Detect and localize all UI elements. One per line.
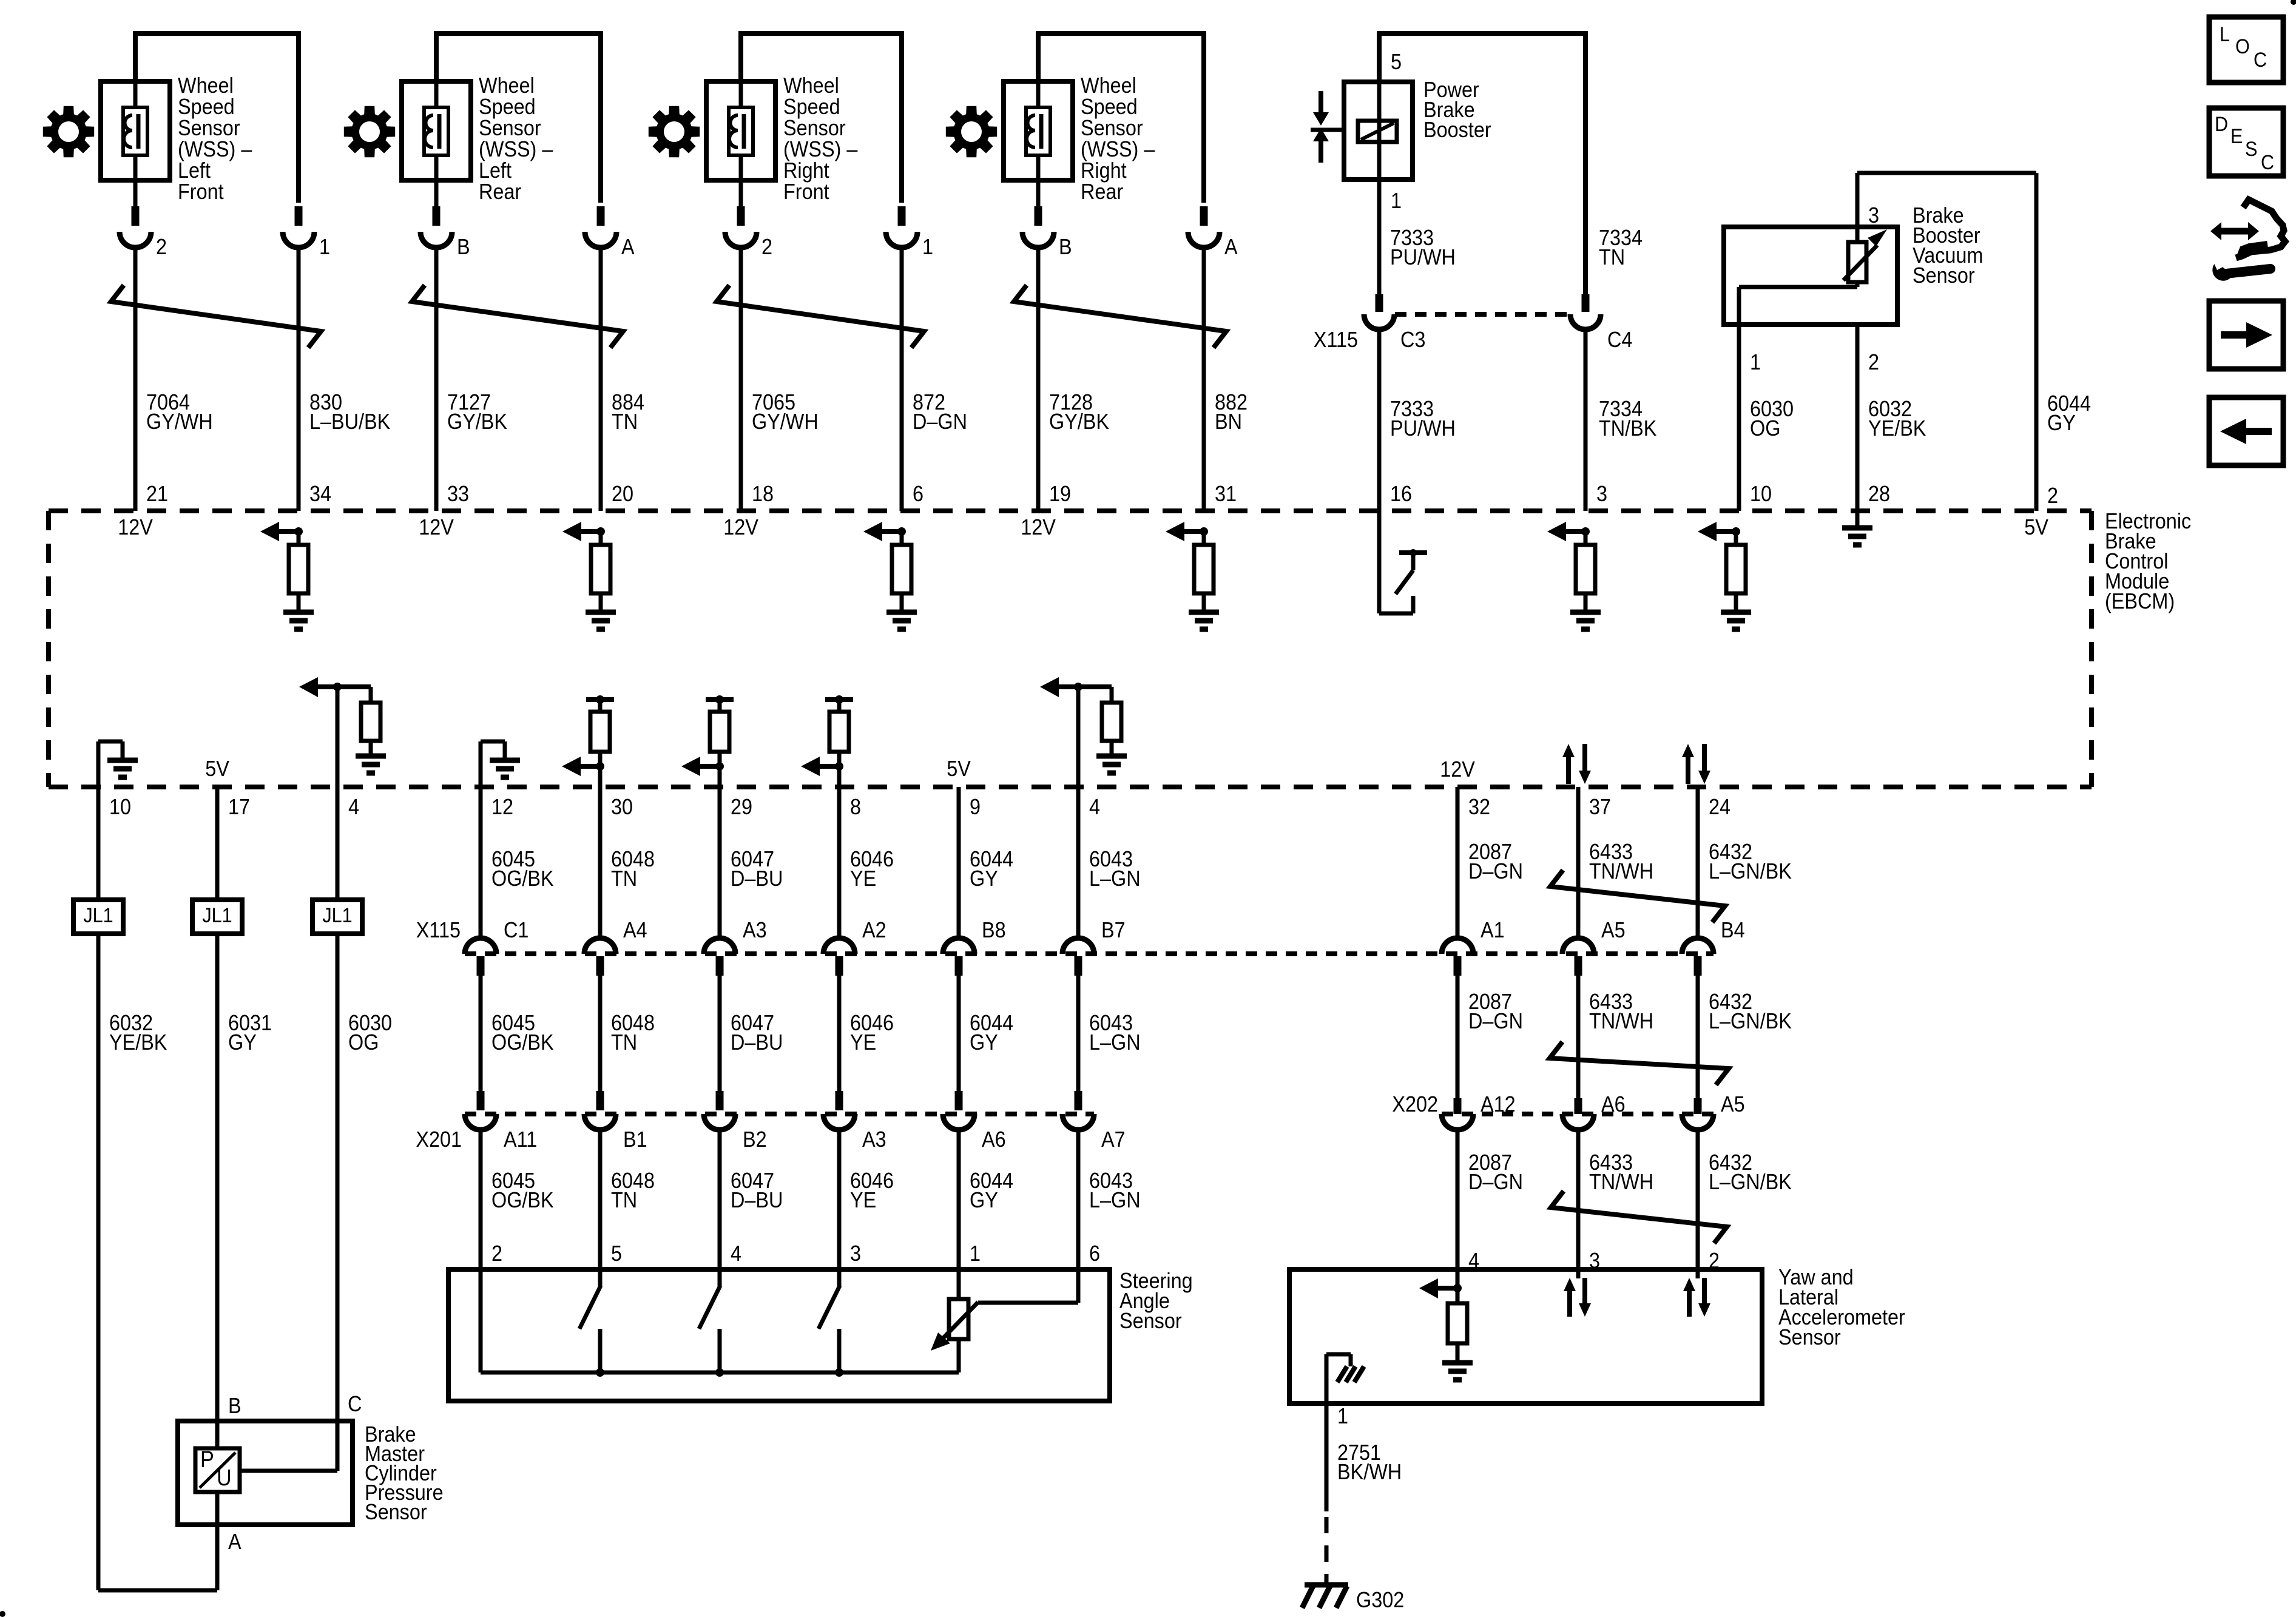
booster vacuum check-valve arrows — [1311, 91, 1344, 163]
svg-text:A3: A3 — [862, 1127, 886, 1152]
pressure sensor P/U transducer — [195, 1446, 240, 1492]
pin 3 number — [1868, 203, 1879, 228]
svg-text:C: C — [2254, 49, 2267, 72]
svg-text:(WSS) –: (WSS) – — [178, 137, 252, 161]
gear wheel icon (Right Rear) — [946, 106, 997, 157]
yaw sensor pin 4 — [1468, 1249, 1479, 1273]
svg-text:YE: YE — [850, 866, 876, 891]
svg-text:5V: 5V — [2024, 515, 2048, 539]
svg-text:TN: TN — [611, 1030, 637, 1055]
svg-text:C3: C3 — [1400, 328, 1425, 352]
svg-text:2: 2 — [491, 1241, 502, 1266]
booster relay coil symbol — [1358, 121, 1397, 142]
wire 7128 GY/BK — [1036, 246, 1041, 511]
X115 connector A5 — [1562, 918, 1626, 976]
wire 6048 TN segment X115 to X201 — [598, 976, 603, 1110]
svg-text:Sensor: Sensor — [1778, 1325, 1841, 1349]
svg-text:YE/BK: YE/BK — [109, 1030, 167, 1055]
wire labels 7127 GY/BK / 884 TN — [447, 390, 644, 434]
svg-text:(EBCM): (EBCM) — [2105, 589, 2175, 613]
yaw sensor serial arrows pin 2 — [1683, 1269, 1710, 1317]
svg-text:Speed: Speed — [1081, 95, 1138, 119]
wire 6030 OG — [1737, 325, 1741, 511]
svg-text:D–BU: D–BU — [731, 866, 783, 891]
svg-text:Sensor: Sensor — [1081, 116, 1143, 140]
wire 6048 TN segment EBCM to X115 — [598, 787, 603, 939]
steering sensor pin 2 — [491, 1241, 502, 1266]
wire 6432 L&#8211;GN/BK segment EBCM to X115 — [1696, 787, 1700, 939]
svg-text:TN/WH: TN/WH — [1589, 859, 1653, 883]
wire 6031 GY lower — [215, 934, 220, 1421]
12V net label — [118, 515, 153, 539]
wire 6030 OG lower — [336, 934, 340, 1421]
terminal pins WSS Left Front — [135, 180, 299, 226]
vacuum sensor label — [1913, 203, 1983, 288]
svg-text:X202: X202 — [1392, 1092, 1438, 1116]
svg-text:OG/BK: OG/BK — [491, 866, 554, 891]
wire 6046 YE segment X201 to steering sensor pin 3 — [837, 1129, 842, 1269]
svg-text:19: 19 — [1049, 482, 1071, 506]
label 6043 L&#8211;GN (middle) — [1089, 1011, 1141, 1055]
svg-text:TN: TN — [611, 1188, 637, 1212]
EBCM label — [2105, 509, 2191, 613]
wire 6043 L&#8211;GN segment X201 to steering sensor pin 6 — [1076, 1129, 1081, 1269]
pin letters 2 1 — [156, 235, 330, 259]
twisted pair crossover Right Front — [717, 285, 924, 348]
svg-text:2: 2 — [2047, 484, 2058, 508]
svg-text:18: 18 — [752, 482, 774, 506]
svg-text:33: 33 — [447, 482, 469, 506]
booster loop wire — [1379, 33, 1585, 297]
svg-text:A11: A11 — [504, 1127, 537, 1152]
svg-text:Wheel: Wheel — [178, 73, 234, 98]
label 6433 TN/WH (middle) — [1589, 990, 1653, 1033]
wire 6032 YE/BK — [1855, 325, 1860, 511]
steering sensor pin 3 — [850, 1241, 861, 1266]
svg-text:BK/WH: BK/WH — [1337, 1460, 1402, 1484]
label 6044 GY (upper) — [970, 847, 1013, 891]
steering angle sensor box — [448, 1269, 1110, 1401]
labels 6030 OG / 6032 YE/BK / 6044 GY — [1750, 391, 2091, 441]
svg-text:A: A — [228, 1530, 241, 1554]
svg-text:37: 37 — [1589, 795, 1611, 819]
label 6043 L&#8211;GN (upper) — [1089, 847, 1141, 891]
steering sensor pin 6 — [1089, 1241, 1100, 1266]
label 6048 TN (lower) — [611, 1169, 655, 1212]
svg-text:(WSS) –: (WSS) – — [479, 137, 553, 161]
svg-text:30: 30 — [611, 795, 633, 819]
wire 7065 GY/WH — [739, 246, 743, 511]
power brake booster box — [1344, 82, 1413, 180]
svg-text:2: 2 — [1868, 350, 1879, 374]
svg-text:GY: GY — [228, 1030, 257, 1055]
X115 connector B7 — [1062, 918, 1126, 976]
labels 7333 PU/WH / 7334 TN/BK lower — [1390, 397, 1657, 441]
EBCM pin numbers 33 20 — [447, 482, 633, 506]
wire 7333 PU/WH upper — [1377, 180, 1382, 312]
svg-text:B: B — [457, 235, 470, 259]
label 2087 D&#8211;GN (middle) — [1468, 990, 1523, 1033]
svg-text:L–GN: L–GN — [1089, 1188, 1141, 1212]
svg-text:Sensor: Sensor — [178, 116, 240, 140]
twisted pair crossover Left Front — [111, 285, 321, 348]
X115 label (mid) — [416, 918, 461, 942]
svg-text:JL1: JL1 — [322, 904, 352, 927]
label 6432 L&#8211;GN/BK (upper) — [1709, 840, 1792, 883]
svg-text:Sensor: Sensor — [479, 116, 541, 140]
EBCM serial data arrows at x=2798 — [1682, 744, 1710, 784]
svg-text:10: 10 — [1750, 482, 1772, 506]
wire 6046 YE segment X115 to X201 — [837, 976, 842, 1110]
X201 connector B2 — [704, 1114, 767, 1152]
yaw pin 1 number — [1337, 1404, 1348, 1428]
steering sensor internal bus wire — [481, 1269, 959, 1372]
label 6433 TN/WH (upper) — [1589, 840, 1653, 883]
wire 6047 D&#8211;BU segment X115 to X201 — [718, 976, 722, 1110]
svg-text:16: 16 — [1390, 482, 1412, 506]
wire labels 7064 GY/WH / 830 L&#8211;BU/BK — [146, 390, 390, 434]
svg-text:Speed: Speed — [783, 95, 840, 119]
X202 connector A6 — [1562, 1092, 1626, 1130]
svg-text:D–GN: D–GN — [913, 410, 967, 434]
svg-text:C: C — [2261, 151, 2274, 174]
svg-text:GY: GY — [970, 866, 998, 891]
svg-text:B7: B7 — [1101, 918, 1126, 942]
svg-text:5V: 5V — [947, 757, 971, 781]
svg-text:B1: B1 — [623, 1127, 647, 1152]
steering sensor potentiometer — [949, 1269, 968, 1372]
wire 6032 YE/BK from pin 10 — [96, 787, 101, 900]
svg-text:Booster: Booster — [1423, 118, 1491, 142]
svg-text:Left: Left — [178, 158, 211, 183]
EBCM internal ground at pin 28 — [1842, 511, 1872, 545]
steering sensor wiper arrow — [931, 1269, 1078, 1351]
gear wheel icon (Left Rear) — [344, 106, 395, 157]
svg-text:Wheel: Wheel — [479, 73, 535, 98]
EBCM pin numbers 21 34 — [146, 482, 331, 506]
svg-text:L–BU/BK: L–BU/BK — [309, 410, 390, 434]
pressure sensor internal wires — [217, 1421, 337, 1525]
svg-text:TN: TN — [611, 866, 637, 891]
EBCM internal resistor with arrow at x=1186 — [681, 695, 734, 787]
pressure sensor label — [365, 1422, 444, 1524]
splice pack JL1 — [192, 900, 242, 934]
yaw sensor pin 3 — [1589, 1249, 1600, 1273]
label 6044 GY (middle) — [970, 1011, 1013, 1055]
svg-text:L–GN/BK: L–GN/BK — [1709, 1009, 1792, 1033]
svg-text:1: 1 — [922, 235, 933, 259]
connector half-circles pins B/A — [1022, 232, 1220, 248]
wire 6433 TN/WH segment X202 to yaw sensor pin 3 — [1576, 1129, 1581, 1269]
WSS Left Front label — [178, 73, 252, 204]
label 6047 D&#8211;BU (lower) — [731, 1169, 783, 1212]
wire 6045 OG/BK segment EBCM to X115 — [479, 787, 483, 939]
12V label pin 32 — [1440, 757, 1475, 781]
X201 connector B1 — [584, 1114, 647, 1152]
X202 connector A12 — [1442, 1092, 1516, 1130]
svg-text:X201: X201 — [416, 1127, 462, 1152]
wire labels 7065 GY/WH / 872 D&#8211;GN — [752, 390, 967, 434]
vacuum sensor internal wire pin1 — [1739, 287, 1857, 325]
svg-text:9: 9 — [970, 795, 981, 819]
twisted pair crossover 6433/6432 above X202 — [1550, 1042, 1729, 1085]
wire 882 BN — [1202, 246, 1206, 511]
wire loop WSS Left Rear top — [436, 33, 601, 203]
wire loop WSS Right Front top — [741, 33, 902, 203]
svg-text:PU/WH: PU/WH — [1390, 245, 1456, 269]
wire 6047 D&#8211;BU segment EBCM to X115 — [718, 787, 722, 939]
svg-text:1: 1 — [970, 1241, 981, 1266]
X115 connector C1 — [465, 918, 528, 976]
svg-text:A5: A5 — [1721, 1092, 1745, 1116]
wire 7334 TN upper — [1582, 294, 1590, 312]
svg-text:(WSS) –: (WSS) – — [1081, 137, 1155, 161]
connector X115 C3/C4 dashed line — [1395, 312, 1570, 317]
X201 label — [416, 1127, 462, 1152]
svg-text:32: 32 — [1468, 795, 1490, 819]
steering angle sensor label — [1119, 1269, 1193, 1333]
svg-text:Wheel: Wheel — [783, 73, 839, 98]
yaw sensor internal resistor to ground (pin 4) — [1419, 1269, 1473, 1380]
label 6046 YE (lower) — [850, 1169, 894, 1212]
svg-text:S: S — [2245, 138, 2257, 161]
pin 3 wire and 5V loop (6044 GY) — [1857, 173, 2036, 511]
5V label pin 9 — [947, 757, 971, 781]
labels 6032 / 6031 / 6030 — [109, 1011, 392, 1055]
svg-text:D–BU: D–BU — [731, 1030, 783, 1055]
pin letters 2 1 — [761, 235, 933, 259]
X201 connector A11 — [465, 1114, 537, 1152]
label 6046 YE (upper) — [850, 847, 894, 891]
wire 6032 YE/BK lower — [96, 934, 101, 1590]
svg-text:GY/WH: GY/WH — [752, 410, 819, 434]
svg-text:C4: C4 — [1607, 328, 1632, 352]
twisted pair crossover 6433/6432 above X115 — [1550, 870, 1725, 922]
EBCM pins 10 28 2 — [1750, 482, 2058, 508]
svg-text:TN: TN — [612, 410, 638, 434]
EBCM internal pull resistor + ground at x=990 — [562, 522, 616, 629]
svg-text:TN/WH: TN/WH — [1589, 1009, 1653, 1033]
WSS Right Front label — [783, 73, 858, 204]
svg-text:1: 1 — [1750, 350, 1761, 374]
svg-text:34: 34 — [309, 482, 331, 506]
forward arrow icon box — [2209, 301, 2283, 369]
EBCM internal pull resistor + ground at x=2613 — [1547, 522, 1601, 629]
svg-text:12V: 12V — [723, 515, 758, 539]
svg-text:D–GN: D–GN — [1468, 859, 1523, 883]
svg-text:Sensor: Sensor — [365, 1500, 427, 1524]
vacuum sensor potentiometer — [1843, 227, 1887, 287]
pins 1 2 numbers — [1750, 350, 1879, 374]
svg-text:Speed: Speed — [178, 95, 235, 119]
yaw sensor internal chassis ground (pin 1) — [1326, 1354, 1364, 1403]
X115 connector A4 — [584, 918, 647, 976]
5V net label — [2024, 515, 2048, 539]
pin letters B A — [1059, 235, 1238, 259]
svg-text:OG/BK: OG/BK — [491, 1030, 554, 1055]
wire 6433 TN/WH segment EBCM to X115 — [1576, 787, 1581, 939]
EBCM internal pull resistor + ground at x=1486 — [863, 522, 917, 629]
svg-text:B4: B4 — [1721, 918, 1745, 942]
twisted pair crossover 6433/6432 above yaw sensor — [1551, 1191, 1727, 1243]
connector X115 dashed line (mid) — [465, 951, 1714, 956]
svg-text:A4: A4 — [623, 918, 647, 942]
svg-text:10: 10 — [109, 795, 131, 819]
wire 6044 GY segment X201 to steering sensor pin 1 — [957, 1129, 961, 1269]
terminal pins WSS Left Rear — [436, 180, 601, 226]
svg-text:OG: OG — [348, 1030, 379, 1055]
svg-text:L–GN/BK: L–GN/BK — [1709, 1170, 1792, 1194]
svg-text:Sensor: Sensor — [1913, 263, 1975, 288]
Electronic Brake Control Module (EBCM) dashed outline — [49, 511, 2092, 787]
svg-text:Front: Front — [783, 180, 829, 204]
connector half-circles pins 2/1 — [120, 232, 314, 248]
label 6047 D&#8211;BU (upper) — [731, 847, 783, 891]
pin letters B C A — [228, 1392, 362, 1554]
gear wheel icon (Right Front) — [649, 106, 700, 157]
svg-text:B: B — [1059, 235, 1072, 259]
svg-text:A12: A12 — [1481, 1092, 1516, 1116]
booster pin 5 / pin 1 numbers — [1391, 50, 1402, 213]
svg-text:OG: OG — [1750, 416, 1780, 441]
svg-text:YE: YE — [850, 1188, 876, 1212]
X115 connector B8 — [943, 918, 1006, 976]
12V net label — [419, 515, 454, 539]
svg-text:Sensor: Sensor — [783, 116, 846, 140]
label 6044 GY (lower) — [970, 1169, 1013, 1212]
splice pack JL1 — [312, 900, 362, 934]
svg-text:2: 2 — [156, 235, 167, 259]
X115 connector A3 — [704, 918, 767, 976]
steering sensor internal switch at x=989 — [579, 1269, 604, 1377]
svg-text:L–GN/BK: L–GN/BK — [1709, 859, 1792, 883]
svg-text:JL1: JL1 — [83, 904, 113, 927]
svg-text:5V: 5V — [205, 757, 229, 781]
wire loop WSS Left Front top — [135, 33, 299, 203]
svg-text:L–GN: L–GN — [1089, 866, 1141, 891]
svg-text:GY: GY — [970, 1188, 998, 1212]
EBCM internal resistor with arrow at x=1383 — [801, 695, 853, 787]
WSS Left Rear label — [479, 73, 553, 204]
svg-text:Front: Front — [178, 180, 224, 204]
wire 6432 L&#8211;GN/BK segment X202 to yaw sensor pin 2 — [1696, 1129, 1700, 1269]
svg-text:JL1: JL1 — [202, 904, 232, 927]
svg-text:YE: YE — [850, 1030, 876, 1055]
svg-text:12: 12 — [491, 795, 513, 819]
power brake booster label — [1423, 78, 1491, 142]
svg-text:PU/WH: PU/WH — [1390, 416, 1456, 441]
splice pack JL1 — [73, 900, 123, 934]
brake master cylinder pressure sensor box — [178, 1421, 353, 1525]
wire 2087 D&#8211;GN segment EBCM to X115 — [1456, 787, 1460, 939]
connector arcs C3 C4 — [1364, 314, 1601, 329]
pin letters B A — [457, 235, 635, 259]
X201 connector A6 — [943, 1114, 1006, 1152]
svg-text:3: 3 — [1596, 482, 1607, 506]
svg-text:D–GN: D–GN — [1468, 1170, 1523, 1194]
steering sensor pin 5 — [611, 1241, 622, 1266]
label 6048 TN (middle) — [611, 1011, 655, 1055]
svg-text:A6: A6 — [982, 1127, 1006, 1152]
X202 label — [1392, 1092, 1438, 1116]
terminal pins WSS Right Front — [741, 180, 902, 226]
WSS Right Rear label — [1081, 73, 1155, 204]
svg-text:6: 6 — [1089, 1241, 1100, 1266]
svg-text:A7: A7 — [1101, 1127, 1126, 1152]
connector half-circles pins B/A — [420, 232, 616, 248]
wire 2087 D&#8211;GN segment X115 to X202 — [1456, 976, 1460, 1114]
svg-text:29: 29 — [731, 795, 752, 819]
svg-text:BN: BN — [1215, 410, 1242, 434]
svg-text:Sensor: Sensor — [1119, 1309, 1182, 1333]
svg-text:21: 21 — [146, 482, 168, 506]
svg-text:C: C — [348, 1392, 362, 1416]
wire A loop to 6032 — [98, 1525, 217, 1590]
wire 6030 OG from pin 4 — [336, 787, 340, 900]
svg-text:D–BU: D–BU — [731, 1188, 783, 1212]
X201 connector A3 — [823, 1114, 886, 1152]
svg-text:Wheel: Wheel — [1081, 73, 1136, 98]
yaw sensor label — [1778, 1265, 1905, 1349]
svg-text:C1: C1 — [504, 918, 528, 942]
X115 connector B4 — [1682, 918, 1745, 976]
svg-text:4: 4 — [731, 1241, 741, 1266]
svg-text:(WSS) –: (WSS) – — [783, 137, 858, 161]
svg-text:6: 6 — [913, 482, 923, 506]
EBCM internal resistor/arrow at pin 4 (left) — [299, 677, 386, 787]
gear wheel icon (Left Front) — [43, 106, 94, 157]
wheel speed sensor (Left Rear) box — [402, 81, 471, 180]
wheel speed sensor (Left Front) box — [101, 81, 170, 180]
EBCM pins 16 and 3 — [1390, 482, 1607, 506]
svg-text:2: 2 — [761, 235, 772, 259]
wire 830 L&#8211;BU/BK — [297, 246, 301, 511]
svg-text:A5: A5 — [1601, 918, 1626, 942]
EBCM internal ground bend at pin 10 — [98, 741, 138, 787]
svg-text:31: 31 — [1215, 482, 1237, 506]
svg-text:4: 4 — [1089, 795, 1100, 819]
X115 connector A1 — [1442, 918, 1505, 976]
EBCM bottom pin numbers — [109, 795, 1730, 819]
svg-text:1: 1 — [1391, 189, 1402, 213]
label 6043 L&#8211;GN (lower) — [1089, 1169, 1141, 1212]
connector X202 dashed line — [1442, 1112, 1714, 1116]
svg-text:X115: X115 — [1314, 328, 1358, 352]
terminal pins WSS Right Rear — [1038, 180, 1204, 226]
X201 connector A7 — [1062, 1114, 1126, 1152]
EBCM internal resistor/arrow at pin 4 (right) — [1040, 677, 1127, 787]
svg-text:1: 1 — [319, 235, 330, 259]
svg-text:D: D — [2215, 113, 2228, 136]
steering sensor internal switch at x=1383 — [819, 1269, 843, 1377]
page mark top-right — [2291, 0, 2296, 5]
svg-text:A: A — [1224, 235, 1238, 259]
svg-text:A1: A1 — [1481, 918, 1505, 942]
svg-text:P: P — [200, 1446, 214, 1472]
svg-text:Rear: Rear — [1081, 180, 1123, 204]
G302 label — [1356, 1588, 1404, 1612]
svg-text:12V: 12V — [118, 515, 153, 539]
12V net label — [1021, 515, 1056, 539]
wire labels 7128 GY/BK / 882 BN — [1049, 390, 1248, 434]
svg-text:O: O — [2235, 35, 2250, 58]
X115 C3 C4 labels — [1314, 328, 1633, 352]
wire 6046 YE segment EBCM to X115 — [837, 787, 842, 939]
svg-text:Left: Left — [479, 158, 512, 183]
wire 2751 BK/WH — [1325, 1403, 1329, 1585]
wire 7127 GY/BK — [434, 246, 439, 511]
svg-text:Right: Right — [1081, 158, 1127, 183]
